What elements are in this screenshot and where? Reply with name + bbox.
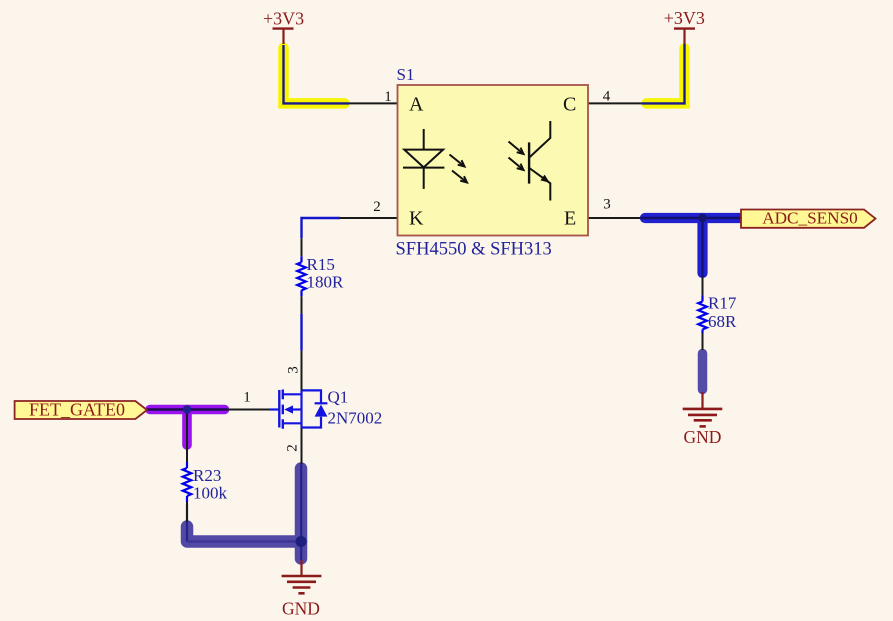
wire core in navy vertical bbox=[300, 464, 302, 560]
pin lines R17 bbox=[702, 277, 704, 350]
svg-text:ADC_SENS0: ADC_SENS0 bbox=[762, 209, 858, 228]
wire R17 top pin bbox=[702, 277, 704, 295]
net highlight ADC_SENS0 (blue) bbox=[645, 218, 741, 273]
svg-text:2N7002: 2N7002 bbox=[328, 409, 383, 428]
ground GND bottom bbox=[282, 560, 322, 619]
photo arrow 2 bbox=[509, 158, 524, 171]
wire +3V3 right under yellow bbox=[642, 44, 685, 103]
svg-text:3: 3 bbox=[286, 366, 302, 374]
svg-text:2: 2 bbox=[285, 444, 301, 452]
port ADC_SENS0 bbox=[741, 209, 876, 228]
svg-text:R17: R17 bbox=[708, 293, 737, 312]
junction FET_GATE0 bbox=[183, 405, 192, 414]
phototransistor emitter arrowhead bbox=[540, 175, 549, 183]
svg-text:1: 1 bbox=[243, 390, 251, 406]
svg-text:+3V3: +3V3 bbox=[664, 8, 705, 28]
ground GND right bbox=[683, 392, 723, 447]
pin lines R15 bbox=[301, 238, 303, 313]
svg-text:1: 1 bbox=[384, 89, 392, 105]
wire R15 to Q1 drain bbox=[300, 314, 302, 351]
wire Q1 source to GND core bbox=[301, 428, 303, 465]
resistor R23 bbox=[183, 462, 192, 502]
svg-text:3: 3 bbox=[603, 197, 611, 213]
svg-text:68R: 68R bbox=[708, 312, 737, 331]
svg-text:4: 4 bbox=[603, 89, 611, 105]
net highlight +3V3 left (yellow) bbox=[284, 48, 345, 104]
pin 3 line of S1 bbox=[588, 217, 640, 219]
wire ADC junction down core bbox=[701, 218, 703, 277]
svg-text:SFH4550 & SFH313: SFH4550 & SFH313 bbox=[396, 240, 552, 260]
svg-text:R15: R15 bbox=[307, 255, 335, 274]
port FET_GATE0 bbox=[15, 400, 147, 420]
svg-text:A: A bbox=[409, 94, 424, 116]
svg-text:C: C bbox=[563, 94, 576, 116]
photo arrow 1 bbox=[509, 142, 524, 155]
resistor R17 bbox=[698, 295, 707, 333]
pin 1 line of S1 bbox=[349, 102, 398, 104]
svg-text:100k: 100k bbox=[193, 484, 228, 503]
Q1 body diode triangle bbox=[315, 405, 328, 417]
LED inside S1 bbox=[403, 129, 444, 189]
Q1 bulk arrow bbox=[284, 405, 293, 413]
pin 3 line of Q1 bbox=[301, 351, 303, 391]
svg-text:K: K bbox=[409, 208, 424, 230]
wire E pin to ADC_SENS0 core bbox=[640, 217, 742, 219]
svg-text:S1: S1 bbox=[397, 65, 415, 84]
svg-text:FET_GATE0: FET_GATE0 bbox=[29, 400, 125, 420]
power port +3V3 right bbox=[664, 8, 705, 44]
phototransistor inside S1 bbox=[529, 121, 550, 201]
svg-text:Q1: Q1 bbox=[328, 387, 349, 406]
wire +3V3 left under yellow bbox=[284, 45, 350, 103]
svg-text:GND: GND bbox=[684, 427, 722, 447]
net highlight GND bottom (navy) bbox=[187, 469, 301, 559]
transistor Q1 bbox=[269, 390, 327, 429]
pin 2 line of S1 bbox=[340, 217, 398, 219]
resistor R15 bbox=[297, 256, 306, 296]
net highlight FET_GATE0 (purple) bbox=[150, 410, 225, 446]
svg-text:GND: GND bbox=[282, 599, 320, 619]
wire FET junction down core bbox=[186, 410, 188, 463]
power port +3V3 left bbox=[263, 9, 304, 45]
net highlight GND right (navy) bbox=[698, 354, 708, 390]
LED emission arrow 1 bbox=[450, 155, 465, 167]
pin 1 line of Q1 bbox=[227, 409, 269, 411]
svg-text:R23: R23 bbox=[193, 466, 221, 485]
svg-text:E: E bbox=[564, 208, 576, 230]
junction GND bottom bbox=[296, 536, 307, 547]
net highlight +3V3 right (yellow) bbox=[647, 49, 685, 104]
wire K pin to R15 bbox=[302, 218, 341, 238]
svg-text:+3V3: +3V3 bbox=[263, 9, 304, 29]
optocoupler S1 body bbox=[398, 85, 589, 236]
pin 4 line of S1 bbox=[588, 102, 642, 104]
svg-text:180R: 180R bbox=[307, 273, 345, 292]
wire R23 bottom to GND corner core bbox=[186, 504, 188, 542]
wire FET_GATE0 core bbox=[147, 408, 227, 410]
wire core navy horizontal bbox=[187, 540, 301, 542]
junction ADC_SENS0 bbox=[698, 214, 707, 223]
LED emission arrow 2 bbox=[452, 171, 467, 183]
pin lines R23 bbox=[186, 448, 188, 522]
svg-text:2: 2 bbox=[373, 199, 381, 215]
